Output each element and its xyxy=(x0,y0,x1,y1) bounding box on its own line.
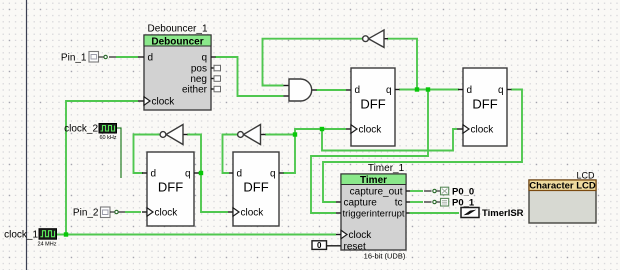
svg-text:d: d xyxy=(151,169,157,180)
svg-text:clock: clock xyxy=(359,125,383,136)
svg-text:q: q xyxy=(185,169,191,180)
flip-flop DFF_3 xyxy=(346,68,400,146)
terminal neg xyxy=(214,76,221,82)
clock source clock_2 xyxy=(64,123,117,141)
clock source clock_1 xyxy=(4,229,57,248)
svg-text:q: q xyxy=(201,53,207,64)
svg-text:DFF: DFF xyxy=(243,180,268,195)
component Debouncer_1 xyxy=(138,24,221,111)
junction clock distribution xyxy=(320,127,324,131)
junction DFF_2 q / inverter tap xyxy=(293,132,297,136)
wire inverter U5 output to AND input 1 xyxy=(263,39,363,86)
junction on clock_1 rail xyxy=(64,232,68,236)
wire clock distribution down rail to DFF_4 clock xyxy=(322,129,457,151)
svg-text:pos: pos xyxy=(191,64,207,75)
svg-text:capture: capture xyxy=(344,198,378,209)
flip-flop DFF_2 xyxy=(228,152,284,226)
svg-text:Debouncer_1: Debouncer_1 xyxy=(147,24,207,35)
flip-flop DFF_4 xyxy=(457,68,512,146)
junction DFF_3 q / trigger tap xyxy=(426,87,430,91)
wire DFF_1 q to inverter U3 input xyxy=(187,135,201,174)
terminal pos xyxy=(214,65,221,71)
svg-text:clock: clock xyxy=(471,125,495,136)
svg-text:DFF: DFF xyxy=(158,180,183,195)
inverter U4 xyxy=(238,125,266,145)
wire clock_1 up to Debouncer clock xyxy=(66,101,138,235)
pin Pin_1 xyxy=(61,52,107,64)
interrupt TimerISR xyxy=(461,208,524,220)
svg-text:reset: reset xyxy=(344,242,366,253)
pin P0_0 xyxy=(441,186,475,197)
pin P0_1 xyxy=(441,198,475,209)
wire inverter U4 output loop to DFF_2 d xyxy=(223,135,238,174)
svg-text:0: 0 xyxy=(317,241,322,250)
svg-text:Pin_2: Pin_2 xyxy=(73,207,99,218)
wire Timer interrupt to TimerISR xyxy=(410,212,460,214)
svg-text:16-bit (UDB): 16-bit (UDB) xyxy=(364,251,406,260)
inverter U5 (top) xyxy=(363,30,388,47)
svg-text:TimerISR: TimerISR xyxy=(482,208,524,219)
wire DFF_1 q down to DFF_2 clock xyxy=(201,173,228,212)
wire Debouncer q to AND input 2 xyxy=(215,57,284,96)
wire DFF_2 q to inverter U4 input xyxy=(265,135,295,174)
svg-text:LCD: LCD xyxy=(576,170,595,180)
wire AND output to DFF_3 d xyxy=(316,89,346,91)
svg-text:d: d xyxy=(355,85,361,96)
wire clock_1 rail to Timer clock xyxy=(56,234,337,236)
svg-text:d: d xyxy=(148,53,154,64)
svg-text:Timer_1: Timer_1 xyxy=(368,163,405,174)
svg-text:clock: clock xyxy=(349,230,373,241)
svg-text:60 kHz: 60 kHz xyxy=(99,135,116,141)
svg-text:Character LCD: Character LCD xyxy=(529,181,596,192)
inverter U3 xyxy=(160,125,187,145)
svg-text:clock: clock xyxy=(155,208,179,219)
svg-text:clock: clock xyxy=(152,97,176,108)
wire DFF_3 q down to Timer trigger xyxy=(311,90,428,214)
wire clock_2 dangling drop xyxy=(117,128,122,178)
svg-text:24 MHz: 24 MHz xyxy=(38,242,57,248)
svg-text:Debouncer: Debouncer xyxy=(151,36,203,47)
svg-text:capture_out: capture_out xyxy=(350,187,403,198)
svg-text:tc: tc xyxy=(395,198,403,209)
svg-text:d: d xyxy=(467,85,473,96)
svg-text:Pin_1: Pin_1 xyxy=(61,52,87,63)
wire Pin_2 to DFF_1 clock xyxy=(118,211,141,213)
wire DFF_2 q up to clock distribution xyxy=(295,129,346,135)
wire DFF_3 q up to inverter U5 input xyxy=(387,39,417,90)
svg-text:P0_0: P0_0 xyxy=(452,186,474,197)
wire DFF_3 q to DFF_4 d xyxy=(399,89,459,91)
pin Pin_2 xyxy=(73,207,118,218)
junction DFF_1 q xyxy=(199,171,203,175)
component Timer_1 xyxy=(336,163,410,260)
svg-text:either: either xyxy=(182,85,208,96)
terminal either xyxy=(214,86,221,92)
svg-text:q: q xyxy=(386,85,392,96)
svg-text:trigger: trigger xyxy=(343,208,370,219)
sheet border line xyxy=(26,0,28,270)
wire Timer capture_out to P0_0 xyxy=(410,189,441,192)
component LCD (Character LCD) xyxy=(529,170,596,223)
wire Pin_1 to Debouncer d xyxy=(109,56,138,58)
constant 0 source xyxy=(312,241,341,250)
wire inverter U3 output loop to DFF_1 d xyxy=(134,135,160,174)
svg-text:q: q xyxy=(270,169,276,180)
svg-text:Timer: Timer xyxy=(360,175,387,186)
svg-text:DFF: DFF xyxy=(360,97,385,112)
wire Timer tc to P0_1 xyxy=(410,200,441,203)
junction DFF_3 q / inverter tap xyxy=(415,87,419,91)
svg-text:clock: clock xyxy=(241,208,265,219)
gate AND U2 xyxy=(284,79,317,101)
svg-text:interrupt: interrupt xyxy=(370,208,405,219)
svg-text:clock_1: clock_1 xyxy=(4,229,38,240)
svg-text:neg: neg xyxy=(190,74,207,85)
wire DFF_4 q to Timer capture xyxy=(323,90,522,203)
svg-text:clock_2: clock_2 xyxy=(64,123,98,134)
svg-text:d: d xyxy=(237,169,243,180)
svg-text:DFF: DFF xyxy=(472,97,497,112)
flip-flop DFF_1 xyxy=(142,152,199,226)
svg-text:q: q xyxy=(498,85,504,96)
